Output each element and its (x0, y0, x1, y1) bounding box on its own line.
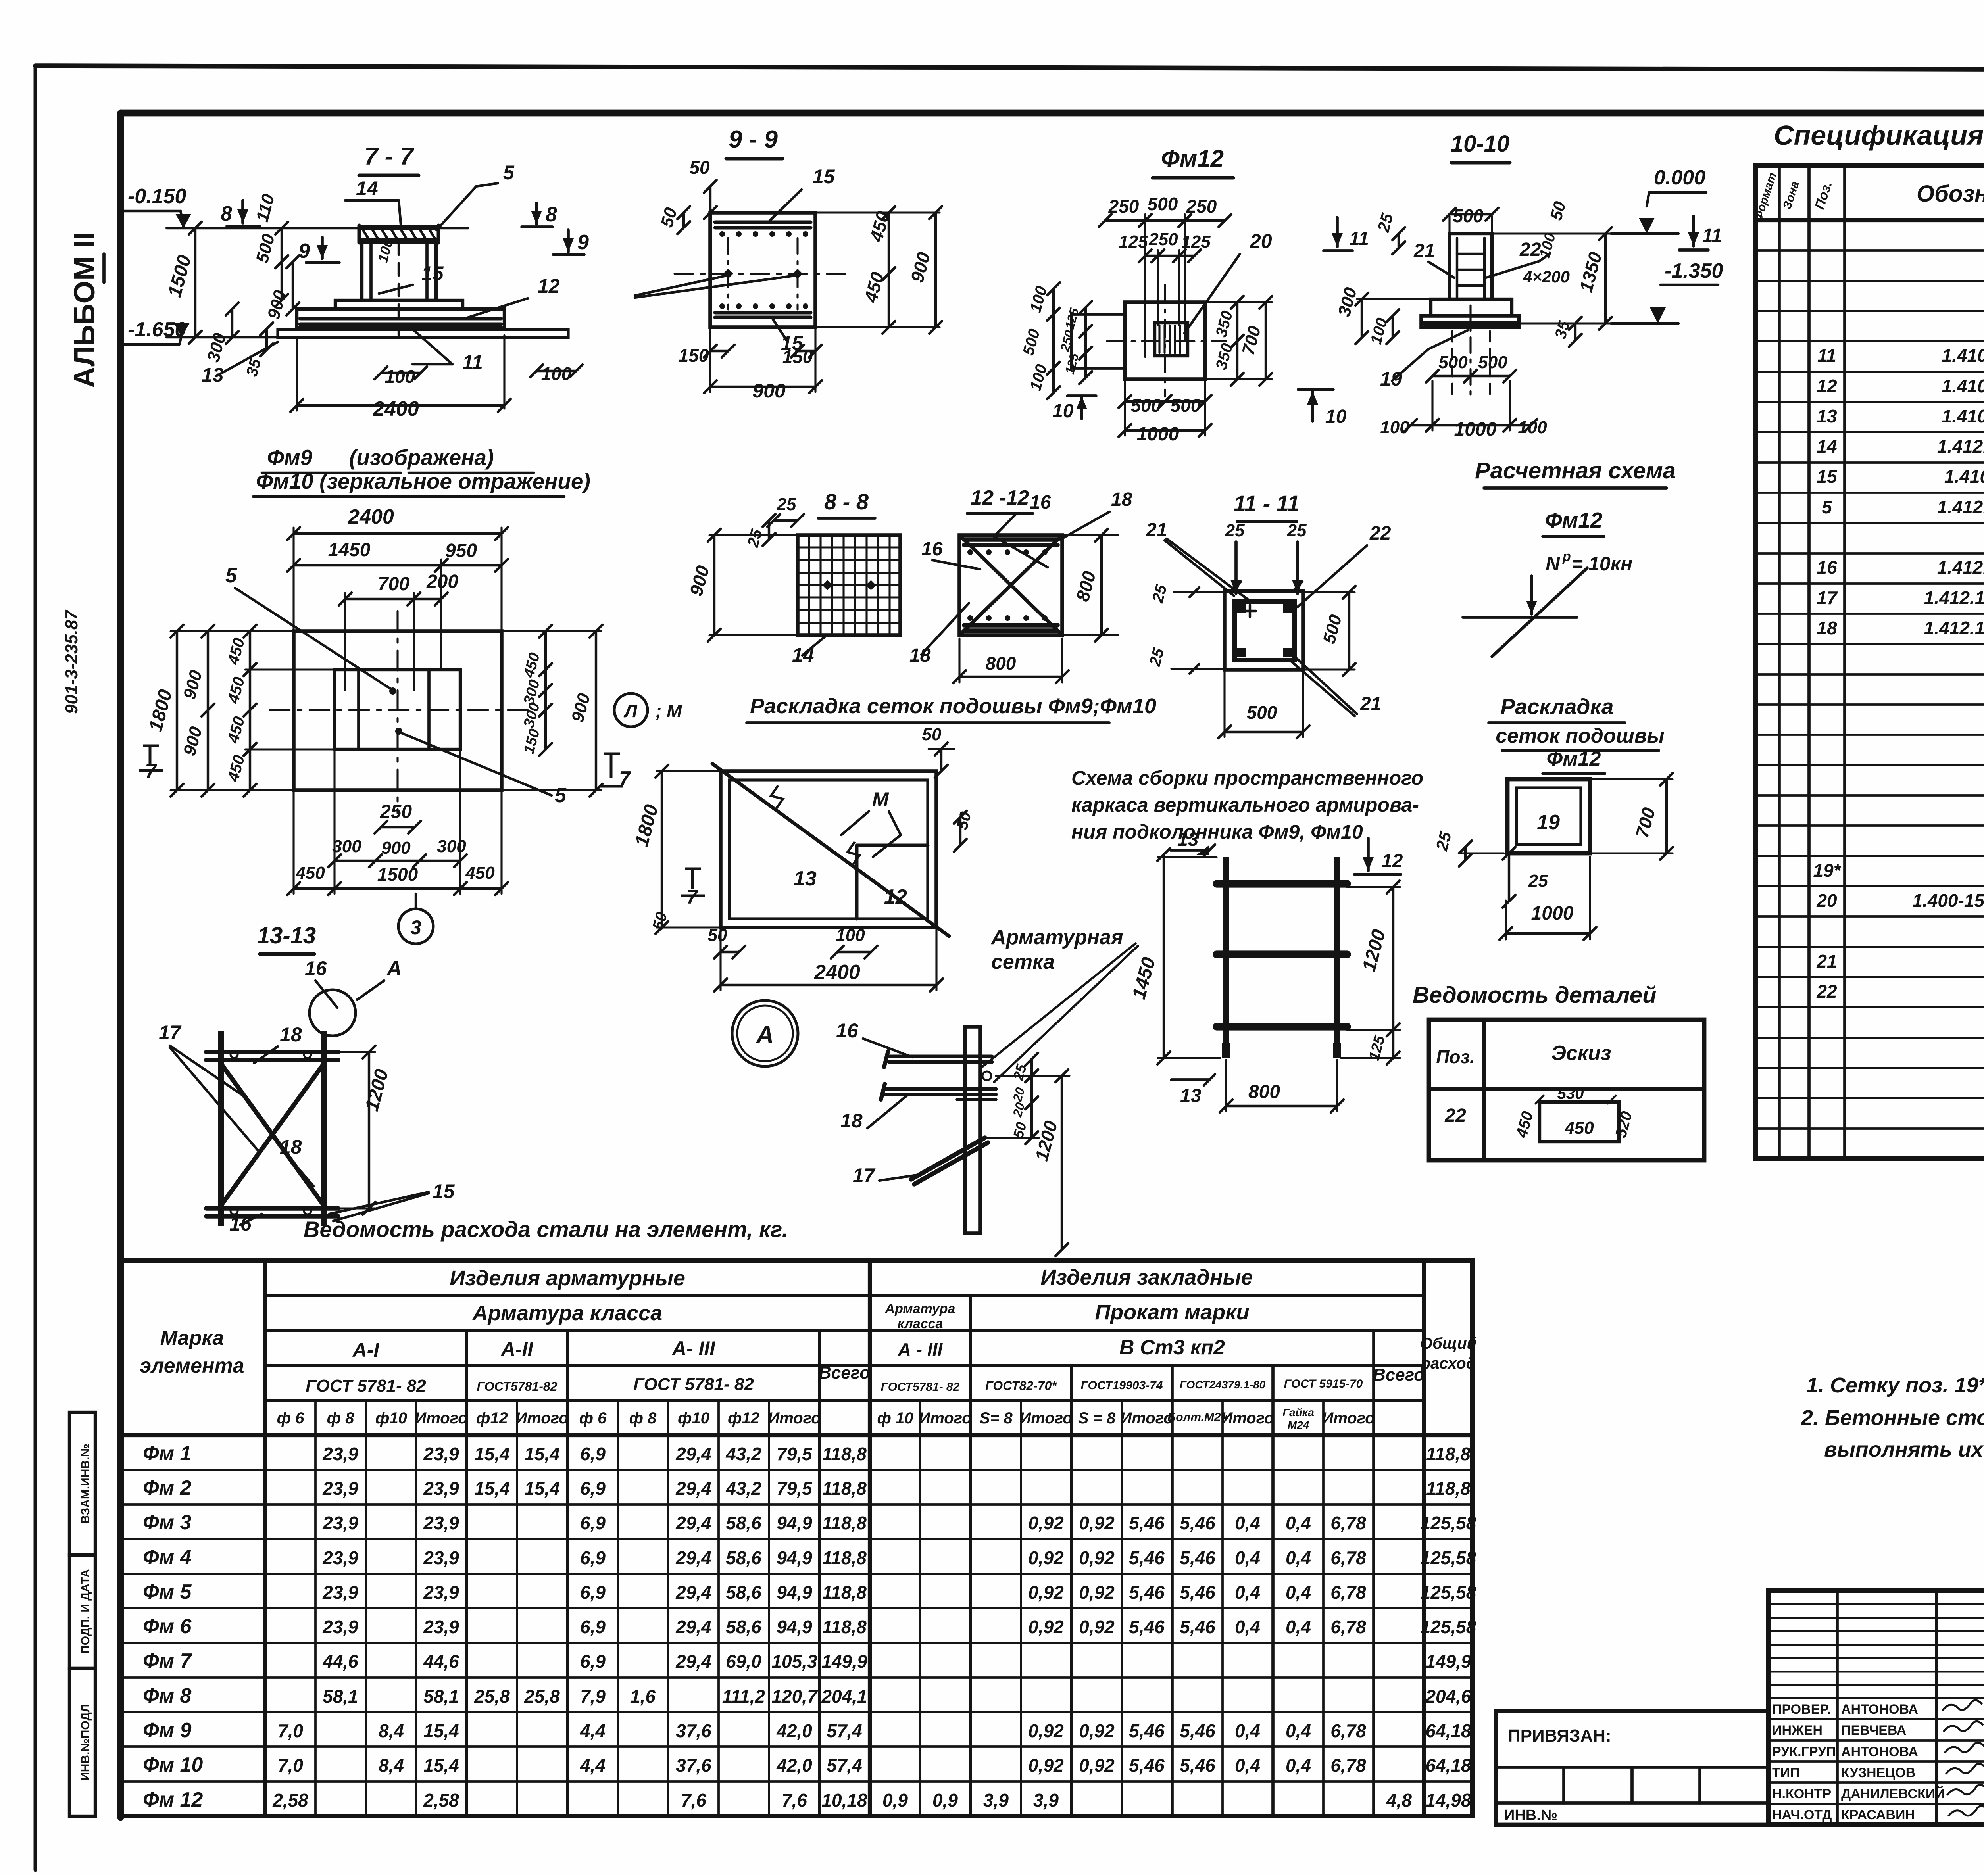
svg-text:6,9: 6,9 (580, 1617, 606, 1637)
svg-text:19: 19 (1537, 811, 1560, 834)
svg-text:118,8: 118,8 (822, 1478, 867, 1499)
svg-text:21: 21 (1413, 240, 1435, 261)
svg-text:1.412.1-4.081-02: 1.412.1-4.081-02 (1924, 618, 1984, 638)
svg-text:1.412.1-4.060: 1.412.1-4.060 (1937, 497, 1984, 517)
svg-text:4,4: 4,4 (580, 1720, 606, 1741)
svg-text:1.412.1-4.081: 1.412.1-4.081 (1937, 557, 1984, 578)
svg-text:64,18: 64,18 (1425, 1755, 1471, 1776)
spec table grid (1756, 165, 1984, 1159)
svg-text:9 - 9: 9 - 9 (729, 126, 778, 153)
svg-text:11: 11 (1702, 225, 1722, 246)
inner drawing frame (121, 110, 1984, 117)
svg-text:17: 17 (159, 1022, 182, 1044)
svg-text:18: 18 (840, 1110, 863, 1132)
svg-text:Общий: Общий (1420, 1335, 1476, 1352)
svg-text:сеток подошвы: сеток подошвы (1496, 724, 1664, 747)
svg-text:149,9: 149,9 (821, 1651, 867, 1672)
svg-text:94,9: 94,9 (777, 1548, 812, 1568)
svg-text:500: 500 (1148, 194, 1178, 214)
svg-text:15,4: 15,4 (423, 1720, 459, 1741)
svg-text:7,6: 7,6 (681, 1790, 706, 1811)
svg-text:ТИП: ТИП (1772, 1765, 1800, 1780)
svg-text:37,6: 37,6 (676, 1755, 711, 1776)
svg-text:2400: 2400 (814, 961, 860, 984)
svg-text:800: 800 (986, 653, 1016, 674)
svg-text:15: 15 (421, 262, 444, 284)
svg-text:900: 900 (752, 380, 786, 402)
svg-text:149,9: 149,9 (1425, 1651, 1471, 1672)
svg-text:1.410-3.1-01: 1.410-3.1-01 (1942, 376, 1984, 396)
svg-text:118,8: 118,8 (822, 1548, 867, 1568)
svg-text:Гайка: Гайка (1282, 1406, 1314, 1419)
svg-text:500: 500 (1438, 353, 1468, 372)
svg-text:4×200: 4×200 (1523, 267, 1570, 286)
svg-text:Итого: Итого (1322, 1409, 1375, 1427)
svg-text:19*: 19* (1813, 860, 1841, 881)
svg-text:23,9: 23,9 (423, 1617, 459, 1637)
svg-text:23,9: 23,9 (322, 1548, 358, 1568)
svg-text:17: 17 (853, 1164, 876, 1187)
svg-text:АНТОНОВА: АНТОНОВА (1841, 1702, 1918, 1717)
svg-text:23,9: 23,9 (423, 1444, 459, 1464)
svg-text:3,9: 3,9 (1033, 1790, 1059, 1811)
svg-text:94,9: 94,9 (777, 1513, 812, 1533)
svg-text:ния подколонника Фм9, Фм10: ния подколонника Фм9, Фм10 (1071, 821, 1363, 843)
svg-text:79,5: 79,5 (777, 1478, 813, 1499)
svg-text:Фм9: Фм9 (267, 445, 313, 470)
svg-text:58,1: 58,1 (323, 1686, 358, 1707)
svg-text:ГОСТ 5915-70: ГОСТ 5915-70 (1284, 1377, 1363, 1390)
svg-text:М24: М24 (1288, 1419, 1309, 1431)
svg-text:23,9: 23,9 (322, 1444, 358, 1464)
svg-text:0,92: 0,92 (1079, 1548, 1115, 1568)
svg-text:25,8: 25,8 (474, 1686, 510, 1707)
svg-text:450: 450 (295, 863, 325, 883)
svg-text:4,4: 4,4 (580, 1755, 606, 1776)
svg-text:100: 100 (385, 366, 415, 387)
svg-text:Схема сборки пространственного: Схема сборки пространственного (1071, 767, 1423, 789)
svg-text:0,92: 0,92 (1028, 1617, 1064, 1637)
privyazan box (1496, 1711, 1768, 1825)
svg-text:13-13: 13-13 (257, 923, 316, 949)
svg-text:Расчетная схема: Расчетная схема (1475, 458, 1676, 484)
svg-text:1500: 1500 (377, 864, 418, 885)
svg-text:42,0: 42,0 (776, 1720, 812, 1741)
svg-text:ГОСТ19903-74: ГОСТ19903-74 (1081, 1379, 1163, 1392)
svg-text:50: 50 (922, 725, 942, 744)
svg-text:58,6: 58,6 (726, 1582, 761, 1603)
svg-text:Итого: Итого (415, 1409, 467, 1427)
svg-text:450: 450 (1564, 1118, 1594, 1138)
svg-text:800: 800 (1248, 1081, 1280, 1102)
svg-text:23,9: 23,9 (322, 1582, 358, 1603)
svg-text:Фм 1: Фм 1 (143, 1442, 191, 1465)
svg-text:6,78: 6,78 (1330, 1513, 1366, 1533)
svg-text:ГОСТ 5781- 82: ГОСТ 5781- 82 (306, 1376, 426, 1396)
svg-text:1000: 1000 (1531, 903, 1574, 924)
svg-text:Фм10 (зеркальное отражение): Фм10 (зеркальное отражение) (256, 469, 590, 493)
svg-text:300: 300 (437, 837, 466, 856)
svg-text:13: 13 (1180, 1085, 1202, 1106)
svg-text:900: 900 (381, 838, 411, 858)
svg-text:17: 17 (1817, 588, 1838, 608)
svg-text:5: 5 (225, 564, 237, 587)
svg-text:А-I: А-I (352, 1339, 380, 1361)
svg-text:Марка: Марка (160, 1327, 224, 1350)
svg-text:выполнять их следует в одн: выполнять их следует в одной опалубке с … (1824, 1438, 1984, 1461)
svg-text:125: 125 (1119, 232, 1148, 252)
detail A (732, 1000, 798, 1066)
svg-text:2,58: 2,58 (272, 1790, 308, 1811)
svg-text:11: 11 (1349, 228, 1369, 250)
svg-text:ф 6: ф 6 (579, 1409, 607, 1427)
svg-text:Фм 3: Фм 3 (143, 1511, 192, 1534)
vedomost detaley table (1429, 1020, 1704, 1160)
svg-text:2. Бетонные столбики под фу: 2. Бетонные столбики под фундаментные ба… (1801, 1406, 1984, 1430)
svg-text:7,6: 7,6 (782, 1790, 807, 1811)
svg-text:450: 450 (465, 863, 495, 883)
svg-text:58,6: 58,6 (726, 1548, 761, 1568)
svg-text:0,92: 0,92 (1028, 1548, 1064, 1568)
svg-text:29,4: 29,4 (675, 1582, 711, 1603)
svg-text:ф 8: ф 8 (629, 1409, 657, 1427)
svg-text:250: 250 (1148, 230, 1178, 249)
svg-text:S = 8: S = 8 (1078, 1409, 1116, 1427)
svg-text:18: 18 (280, 1136, 302, 1158)
svg-text:100: 100 (541, 363, 572, 384)
svg-text:23,9: 23,9 (322, 1478, 358, 1499)
svg-text:ПРИВЯЗАН:: ПРИВЯЗАН: (1508, 1726, 1611, 1745)
svg-text:16: 16 (1030, 492, 1051, 513)
svg-text:23,9: 23,9 (423, 1478, 459, 1499)
svg-text:2,58: 2,58 (423, 1790, 459, 1811)
svg-text:118,8: 118,8 (1426, 1478, 1471, 1499)
svg-text:Поз.: Поз. (1436, 1046, 1475, 1067)
svg-text:(изображена): (изображена) (349, 445, 494, 470)
svg-text:105,3: 105,3 (771, 1651, 817, 1672)
svg-text:15,4: 15,4 (524, 1478, 560, 1499)
svg-text:120,7: 120,7 (771, 1686, 818, 1707)
svg-text:Спецификация элементов монол: Спецификация элементов монолитных фундам… (1774, 120, 1984, 151)
svg-text:9: 9 (577, 231, 589, 254)
svg-text:класса: класса (898, 1316, 943, 1331)
svg-text:3,9: 3,9 (983, 1790, 1009, 1811)
svg-text:6,9: 6,9 (580, 1478, 606, 1499)
svg-text:100: 100 (1380, 418, 1409, 437)
svg-text:7,0: 7,0 (278, 1755, 303, 1776)
svg-text:79,5: 79,5 (777, 1444, 813, 1464)
svg-text:11: 11 (1817, 345, 1836, 366)
svg-text:Фм 10: Фм 10 (143, 1753, 203, 1776)
svg-text:КРАСАВИН: КРАСАВИН (1841, 1807, 1915, 1822)
svg-text:125,58: 125,58 (1421, 1548, 1476, 1568)
svg-text:29,4: 29,4 (675, 1548, 711, 1568)
svg-text:16: 16 (836, 1020, 859, 1042)
svg-text:0,4: 0,4 (1286, 1582, 1311, 1603)
svg-text:ГОСТ24379.1-80: ГОСТ24379.1-80 (1180, 1379, 1266, 1391)
svg-text:18: 18 (1111, 489, 1132, 510)
left margin attribute boxes (69, 1412, 95, 1555)
svg-text:Изделия арматурные: Изделия арматурные (450, 1266, 685, 1290)
svg-text:100: 100 (836, 926, 865, 945)
svg-text:6,9: 6,9 (580, 1513, 606, 1533)
svg-text:Эскиз: Эскиз (1551, 1042, 1611, 1065)
svg-text:15: 15 (1817, 466, 1838, 487)
svg-text:118,8: 118,8 (822, 1513, 867, 1533)
svg-text:29,4: 29,4 (675, 1444, 711, 1464)
svg-text:10: 10 (1052, 401, 1074, 422)
svg-text:5,46: 5,46 (1129, 1513, 1165, 1533)
svg-text:АЛЬБОМ II: АЛЬБОМ II (68, 232, 101, 388)
svg-text:1. Сетку поз. 19* выполнить п: 1. Сетку поз. 19* выполнить по ГОСТ 2327… (1806, 1373, 1984, 1397)
svg-text:Итого: Итого (1019, 1409, 1072, 1427)
svg-text:700: 700 (378, 574, 409, 595)
svg-text:ф 6: ф 6 (277, 1409, 305, 1427)
svg-text:23,9: 23,9 (423, 1513, 459, 1533)
svg-text:ПЕВЧЕВА: ПЕВЧЕВА (1841, 1723, 1906, 1738)
svg-text:1,6: 1,6 (630, 1686, 656, 1707)
svg-text:Итого: Итого (1221, 1409, 1274, 1427)
svg-text:500: 500 (1131, 395, 1161, 416)
svg-text:2400: 2400 (373, 397, 419, 421)
svg-text:6,9: 6,9 (580, 1548, 606, 1568)
svg-text:94,9: 94,9 (777, 1617, 812, 1637)
svg-text:0,92: 0,92 (1079, 1513, 1115, 1533)
svg-text:0,92: 0,92 (1028, 1513, 1064, 1533)
svg-text:ф10: ф10 (375, 1409, 407, 1427)
svg-text:6,78: 6,78 (1330, 1582, 1366, 1603)
svg-text:58,6: 58,6 (726, 1617, 761, 1637)
svg-text:0,4: 0,4 (1235, 1617, 1260, 1637)
svg-text:10-10: 10-10 (1451, 131, 1509, 157)
svg-text:12: 12 (538, 275, 560, 297)
svg-text:23,9: 23,9 (322, 1513, 358, 1533)
svg-text:18: 18 (280, 1023, 302, 1046)
svg-text:950: 950 (445, 540, 477, 561)
svg-text:сетка: сетка (991, 950, 1055, 974)
svg-text:А: А (756, 1022, 774, 1049)
svg-text:1.412.1-4.081-01: 1.412.1-4.081-01 (1924, 588, 1984, 608)
svg-text:Л: Л (623, 701, 638, 721)
svg-text:0,92: 0,92 (1079, 1755, 1115, 1776)
svg-text:23,9: 23,9 (322, 1617, 358, 1637)
svg-text:94,9: 94,9 (777, 1582, 812, 1603)
svg-text:5: 5 (1822, 497, 1832, 517)
svg-text:5,46: 5,46 (1180, 1720, 1215, 1741)
svg-text:16: 16 (921, 539, 943, 560)
svg-text:6,78: 6,78 (1330, 1617, 1366, 1637)
svg-text:N: N (1546, 553, 1560, 575)
svg-text:13: 13 (1817, 406, 1837, 426)
svg-text:16: 16 (305, 957, 327, 979)
sheet outer border (35, 66, 1984, 71)
svg-text:ПОДП. И ДАТА: ПОДП. И ДАТА (79, 1569, 92, 1654)
svg-text:Изделия закладные: Изделия закладные (1040, 1265, 1253, 1289)
svg-text:1.412.1-4.050: 1.412.1-4.050 (1937, 436, 1984, 457)
svg-text:ИНЖЕН: ИНЖЕН (1772, 1723, 1823, 1738)
svg-text:1000: 1000 (1454, 419, 1497, 440)
svg-text:22: 22 (1816, 981, 1837, 1002)
svg-text:0,4: 0,4 (1286, 1548, 1311, 1568)
svg-text:500: 500 (1171, 395, 1201, 416)
svg-text:ГОСТ5781- 82: ГОСТ5781- 82 (881, 1381, 960, 1394)
svg-text:204,1: 204,1 (821, 1686, 867, 1707)
svg-text:Болт.М2ч: Болт.М2ч (1167, 1411, 1228, 1424)
svg-text:ПРОВЕР.: ПРОВЕР. (1772, 1702, 1830, 1717)
svg-text:11: 11 (462, 351, 483, 373)
svg-text:1450: 1450 (328, 540, 371, 561)
svg-text:14,98: 14,98 (1425, 1790, 1471, 1811)
svg-text:25: 25 (1225, 521, 1245, 540)
svg-text:S= 8: S= 8 (979, 1409, 1013, 1427)
svg-text:10,18: 10,18 (821, 1790, 867, 1811)
svg-text:15,4: 15,4 (474, 1478, 510, 1499)
svg-text:530: 530 (1557, 1085, 1584, 1102)
svg-text:1.410-3.1-04: 1.410-3.1-04 (1942, 406, 1984, 426)
svg-text:0,92: 0,92 (1028, 1582, 1064, 1603)
svg-text:57,4: 57,4 (827, 1755, 862, 1776)
svg-text:ГОСТ5781-82: ГОСТ5781-82 (477, 1379, 558, 1394)
svg-text:111,2: 111,2 (722, 1686, 765, 1707)
svg-text:58,6: 58,6 (726, 1513, 761, 1533)
svg-text:Итого: Итого (919, 1409, 971, 1427)
svg-text:6,9: 6,9 (580, 1582, 606, 1603)
svg-text:12: 12 (1817, 376, 1837, 396)
svg-text:13: 13 (1177, 829, 1199, 850)
svg-text:Всего: Всего (819, 1363, 870, 1383)
svg-text:Ведомость деталей: Ведомость деталей (1413, 982, 1657, 1008)
svg-text:23,9: 23,9 (423, 1548, 459, 1568)
svg-text:5,46: 5,46 (1180, 1548, 1215, 1568)
svg-text:5,46: 5,46 (1129, 1617, 1165, 1637)
svg-text:118,8: 118,8 (1426, 1444, 1471, 1464)
svg-text:7,0: 7,0 (278, 1720, 303, 1741)
svg-text:Обозначение: Обозначение (1917, 181, 1984, 207)
svg-text:5,46: 5,46 (1180, 1755, 1215, 1776)
svg-text:8,4: 8,4 (379, 1720, 404, 1741)
svg-text:125,58: 125,58 (1421, 1513, 1476, 1533)
svg-text:Фм 2: Фм 2 (143, 1477, 192, 1500)
svg-text:300: 300 (332, 837, 361, 856)
svg-text:элемента: элемента (140, 1354, 244, 1377)
karkas assembly drawing (1223, 857, 1229, 1058)
steel consumption table (119, 1261, 1472, 1816)
svg-text:25: 25 (1287, 521, 1307, 540)
svg-text:43,2: 43,2 (725, 1478, 761, 1499)
svg-text:2400: 2400 (348, 505, 394, 528)
svg-text:25,8: 25,8 (524, 1686, 560, 1707)
svg-text:5,46: 5,46 (1129, 1548, 1165, 1568)
svg-text:НАЧ.ОТД: НАЧ.ОТД (1772, 1807, 1832, 1822)
svg-text:16: 16 (1817, 557, 1837, 578)
svg-text:22: 22 (1444, 1105, 1466, 1126)
svg-text:44,6: 44,6 (322, 1651, 358, 1672)
podoshva meshes layout Fm9/Fm10 (721, 771, 936, 927)
svg-text:13: 13 (794, 867, 817, 890)
svg-text:57,4: 57,4 (827, 1720, 862, 1741)
raskladka Fm12 plan (1507, 779, 1590, 853)
svg-text:19: 19 (1380, 368, 1402, 390)
svg-text:0,4: 0,4 (1286, 1617, 1311, 1637)
svg-text:11 - 11: 11 - 11 (1234, 491, 1300, 516)
svg-text:0,4: 0,4 (1235, 1720, 1260, 1741)
svg-text:1.400-15.В1.130-30: 1.400-15.В1.130-30 (1912, 890, 1984, 911)
svg-text:каркаса вертикального армирова: каркаса вертикального армирова- (1071, 794, 1419, 816)
svg-text:0,92: 0,92 (1079, 1617, 1115, 1637)
svg-text:23,9: 23,9 (423, 1582, 459, 1603)
svg-text:ГОСТ 5781- 82: ГОСТ 5781- 82 (633, 1375, 754, 1394)
svg-text:Фм 4: Фм 4 (143, 1546, 192, 1569)
svg-text:7 - 7: 7 - 7 (364, 143, 415, 170)
svg-text:8: 8 (546, 203, 557, 226)
svg-text:Фм 5: Фм 5 (143, 1580, 192, 1603)
svg-text:А-II: А-II (500, 1338, 534, 1360)
svg-text:Фм12: Фм12 (1161, 145, 1224, 172)
svg-text:ф 10: ф 10 (877, 1409, 913, 1427)
svg-text:44,6: 44,6 (423, 1651, 459, 1672)
svg-text:ф 8: ф 8 (327, 1409, 355, 1427)
svg-text:6,78: 6,78 (1330, 1720, 1366, 1741)
svg-text:расход: расход (1421, 1355, 1476, 1372)
svg-text:118,8: 118,8 (822, 1582, 867, 1603)
svg-text:69,0: 69,0 (726, 1651, 761, 1672)
svg-text:Прокат марки: Прокат марки (1095, 1300, 1249, 1324)
svg-text:0,4: 0,4 (1235, 1548, 1260, 1568)
svg-text:А - III: А - III (898, 1339, 943, 1360)
svg-text:64,18: 64,18 (1425, 1720, 1471, 1741)
svg-text:5,46: 5,46 (1180, 1617, 1215, 1637)
svg-text:43,2: 43,2 (725, 1444, 761, 1464)
svg-text:М: М (872, 788, 889, 810)
svg-text:6,9: 6,9 (580, 1444, 606, 1464)
svg-text:В Ст3 кп2: В Ст3 кп2 (1119, 1336, 1225, 1359)
svg-text:25: 25 (1528, 871, 1548, 891)
svg-text:204,6: 204,6 (1425, 1686, 1471, 1707)
svg-text:Фм 8: Фм 8 (143, 1684, 192, 1707)
svg-text:6,78: 6,78 (1330, 1548, 1366, 1568)
svg-text:4,8: 4,8 (1386, 1790, 1412, 1811)
svg-text:ГОСТ82-70*: ГОСТ82-70* (985, 1379, 1057, 1393)
svg-text:А- III: А- III (671, 1337, 715, 1359)
svg-text:ИНВ.№ПОДЛ: ИНВ.№ПОДЛ (79, 1704, 92, 1781)
svg-text:29,4: 29,4 (675, 1651, 711, 1672)
svg-text:ИНВ.№: ИНВ.№ (1504, 1807, 1557, 1824)
svg-text:0,9: 0,9 (882, 1790, 908, 1811)
svg-text:КУЗНЕЦОВ: КУЗНЕЦОВ (1841, 1765, 1915, 1780)
svg-text:20: 20 (1816, 890, 1837, 911)
svg-text:1.410-31-01: 1.410-31-01 (1944, 466, 1984, 487)
svg-text:Фм 12: Фм 12 (143, 1788, 203, 1811)
svg-text:Арматура класса: Арматура класса (472, 1301, 662, 1325)
svg-text:12: 12 (1382, 851, 1403, 872)
svg-text:37,6: 37,6 (676, 1720, 711, 1741)
svg-text:20: 20 (1250, 230, 1272, 252)
svg-text:= 10кн: = 10кн (1571, 553, 1632, 575)
svg-text:5,46: 5,46 (1180, 1513, 1215, 1533)
svg-text:29,4: 29,4 (675, 1478, 711, 1499)
svg-text:15,4: 15,4 (474, 1444, 510, 1464)
svg-text:Арматура: Арматура (885, 1301, 955, 1316)
svg-text:500: 500 (1453, 205, 1484, 226)
svg-text:200: 200 (426, 571, 458, 592)
svg-text:18: 18 (1817, 618, 1837, 638)
svg-text:15,4: 15,4 (423, 1755, 459, 1776)
svg-text:3: 3 (410, 916, 421, 939)
svg-text:5,46: 5,46 (1129, 1582, 1165, 1603)
svg-text:29,4: 29,4 (675, 1617, 711, 1637)
svg-text:14: 14 (1817, 436, 1837, 457)
svg-text:0,92: 0,92 (1028, 1720, 1064, 1741)
